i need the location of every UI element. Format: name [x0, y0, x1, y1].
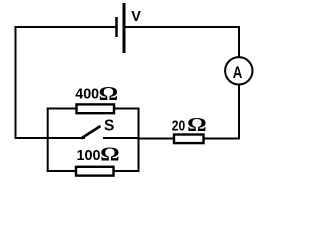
svg-text:V: V [131, 9, 141, 25]
resistor 400ohm [77, 104, 115, 113]
wire bottom branch [47, 170, 140, 172]
svg-text:Ω: Ω [99, 84, 119, 105]
wire top-left horizontal [15, 26, 117, 28]
wire top branch [47, 108, 140, 110]
wire right vertical upper [238, 26, 240, 57]
wire bottom-right horizontal [204, 138, 240, 140]
svg-text:Ω: Ω [187, 115, 207, 136]
svg-text:100: 100 [77, 147, 101, 164]
battery V negative plate [115, 17, 118, 37]
switch S blade [81, 126, 101, 139]
wire left vertical [15, 26, 17, 139]
svg-text:20: 20 [172, 117, 185, 134]
svg-text:A: A [233, 64, 243, 82]
wire top-right horizontal [124, 26, 240, 28]
wire from 20ohm to parallel box [138, 138, 175, 140]
ammeter A [225, 57, 252, 84]
resistor 100ohm [76, 167, 114, 176]
parallel box left edge wire [47, 108, 49, 173]
resistor 20ohm [174, 135, 204, 144]
battery V positive plate [123, 3, 126, 53]
wire middle-left horizontal [15, 137, 86, 139]
wire right vertical lower [238, 85, 240, 140]
svg-text:400: 400 [75, 85, 99, 102]
svg-text:Ω: Ω [100, 145, 120, 166]
wire switch right contact [103, 137, 139, 139]
parallel box right edge wire [138, 108, 140, 173]
svg-text:S: S [104, 118, 114, 135]
